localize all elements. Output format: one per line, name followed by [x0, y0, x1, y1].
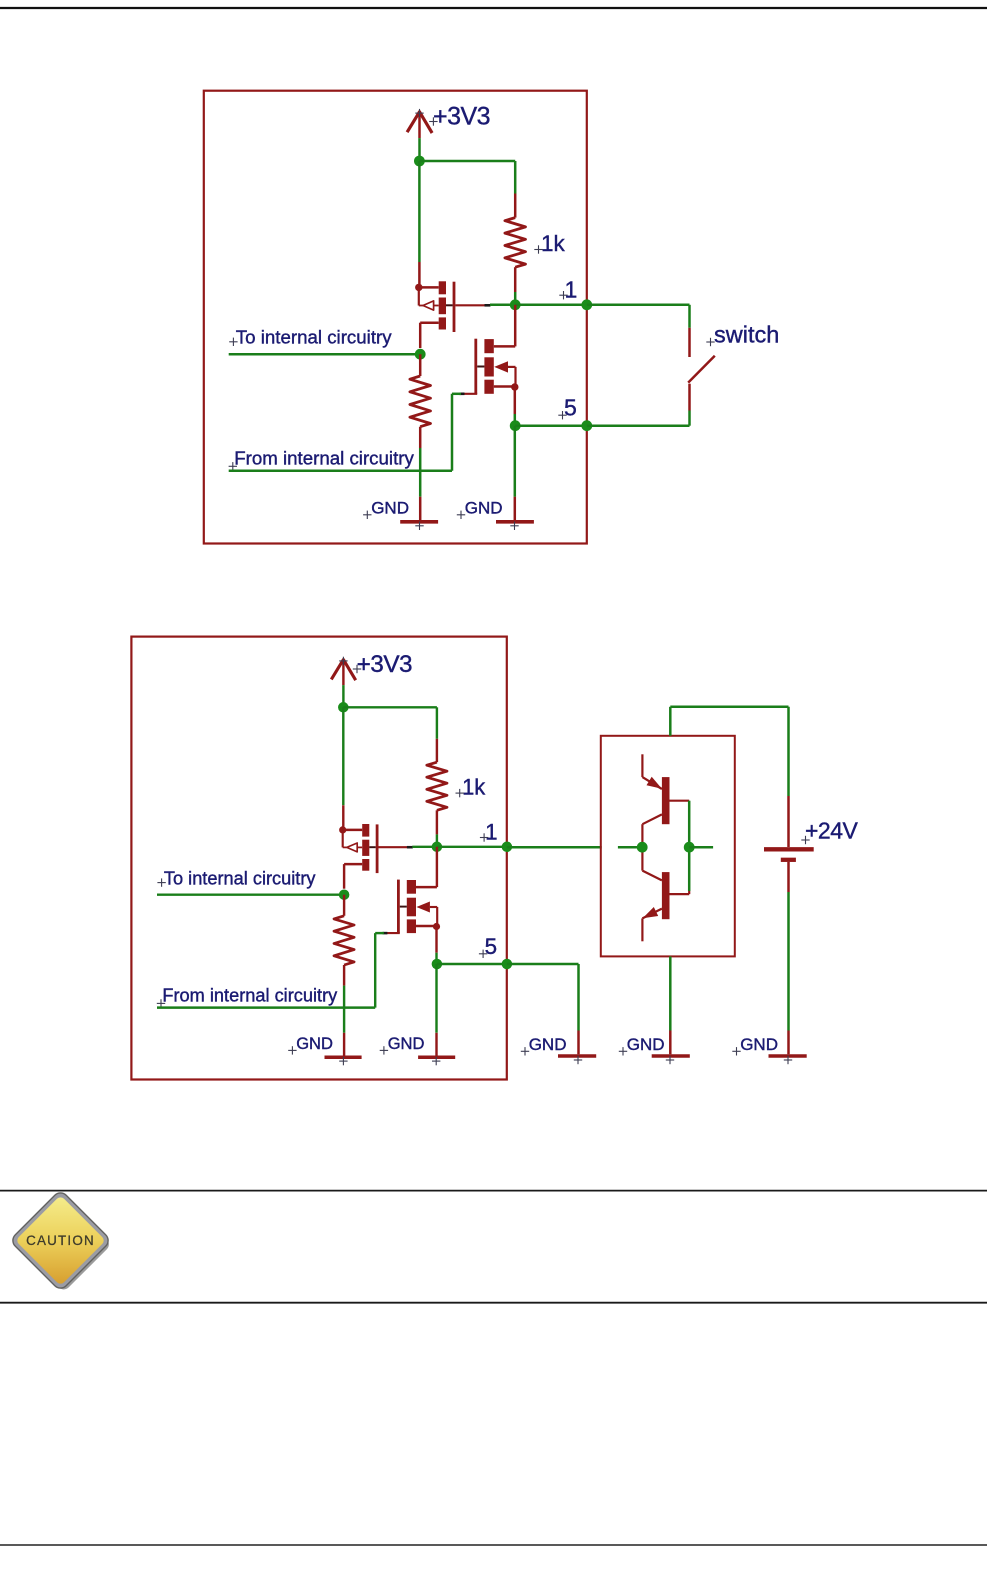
svg-text:5: 5 [564, 395, 577, 421]
Q2 source junction dot (circuit 2) [433, 923, 440, 930]
transistor Q1 P-MOSFET body (circuit 2) [343, 824, 379, 889]
GND2 origin marker (circuit 1) [510, 522, 518, 530]
junction node A (circuit 2) [338, 702, 349, 713]
Q2 gate pin (circuit 2) [384, 932, 400, 934]
resistor R1 1k (circuit 1) [505, 194, 526, 293]
junction node A (circuit 1) [414, 156, 425, 167]
P-MOSFET Q1 source pin (circuit 1) [418, 161, 421, 287]
+3V3 supply arrow (circuit 2) [331, 660, 355, 686]
wire node 1 to driver box [507, 846, 602, 849]
node 5 label origin marker (circuit 2) [479, 950, 487, 958]
wire node 1 to Q2 drain (circuit 2) [436, 847, 438, 887]
GND1 label origin marker (circuit 2) [288, 1046, 296, 1054]
schematic frame box (circuit 2) [131, 637, 506, 1080]
wire Q2 gate riser (circuit 1) [452, 394, 461, 471]
wire From internal circuitry (circuit 1) [229, 469, 452, 472]
svg-text:To internal circuitry: To internal circuitry [164, 868, 317, 888]
GND4 origin marker [666, 1056, 674, 1064]
wire driver box top to +24V [670, 707, 788, 796]
junction node 1 (circuit 1) [510, 299, 521, 310]
junction To-internal node (circuit 1) [415, 349, 426, 360]
svg-text:GND: GND [740, 1035, 778, 1054]
wire node 1 to switch [587, 305, 690, 328]
caution rule bottom [0, 1302, 987, 1304]
switch S1 [688, 328, 715, 411]
Q4 base connection [670, 847, 690, 894]
Q1 gate pin (circuit 2) [379, 846, 413, 848]
svg-text:GND: GND [371, 499, 409, 518]
svg-text:To internal circuitry: To internal circuitry [236, 327, 392, 348]
transistor Q1 P-MOSFET body (circuit 1) [419, 281, 456, 348]
Q2 gate pin connection tick (circuit 2) [383, 932, 388, 935]
junction node 5 at box edge (circuit 2) [502, 959, 513, 970]
+3V3 supply arrow (circuit 1) [407, 112, 432, 138]
Q2 source pin down (circuit 1) [514, 387, 517, 426]
GND3 label origin marker [521, 1047, 529, 1055]
resistor R2 pulldown (circuit 1) [410, 354, 431, 448]
P-MOSFET Q1 source junction dot (circuit 2) [339, 826, 346, 833]
svg-text:From internal circuitry: From internal circuitry [162, 986, 338, 1006]
GND1 label origin marker (circuit 1) [363, 511, 371, 519]
wire battery to GND5 [787, 892, 790, 1031]
node 5 label origin marker (circuit 1) [558, 411, 566, 419]
Q2 gate pin connection tick (circuit 1) [460, 392, 465, 395]
wire Q2 gate riser (circuit 2) [375, 933, 384, 1008]
+3V3 symbol origin marker (circuit 1) [415, 109, 423, 117]
GND2 label origin marker (circuit 1) [457, 511, 465, 519]
wire From internal circuitry (circuit 2) [157, 1006, 375, 1008]
svg-text:1k: 1k [541, 231, 566, 256]
svg-text:CAUTION: CAUTION [26, 1233, 95, 1248]
transistor Q3 PNP (upper) [642, 754, 669, 847]
wire Q1 gate to node 1 (circuit 2) [412, 846, 437, 848]
wire node 5 to box edge (circuit 1) [515, 424, 587, 427]
Q2 source pin down (circuit 2) [435, 927, 437, 965]
GND2 label origin marker (circuit 2) [380, 1046, 388, 1054]
wire R1 bottom to node 1 (circuit 2) [436, 834, 438, 846]
1k label origin marker (circuit 1) [534, 245, 542, 253]
caution sign shadow [16, 1196, 112, 1292]
svg-text:From internal circuitry: From internal circuitry [234, 448, 414, 469]
schematic frame box (circuit 1) [204, 91, 587, 544]
wire switch to node 5 [587, 411, 690, 426]
node 1 label origin marker (circuit 2) [480, 833, 488, 841]
wire driver box bottom to GND4 [669, 956, 672, 1030]
transistor Q2 N-MOSFET body (circuit 2) [397, 880, 437, 934]
wire +3V3 to node A (circuit 2) [342, 685, 344, 707]
GND2 origin marker (circuit 2) [432, 1057, 440, 1065]
junction node 1 at box edge (circuit 1) [581, 299, 592, 310]
GND1 origin marker (circuit 1) [415, 522, 423, 530]
driver box input pin left [618, 846, 642, 849]
Q2 source junction dot (circuit 1) [511, 383, 518, 390]
wire R2 to GND (circuit 2) [343, 986, 345, 1033]
junction driver collectors [637, 842, 648, 853]
svg-text:GND: GND [388, 1034, 425, 1053]
junction To-internal node (circuit 2) [339, 889, 350, 900]
GND5 label origin marker [732, 1047, 740, 1055]
ground GND2 (circuit 2) [418, 1033, 455, 1057]
driver box base pin stub [689, 846, 713, 849]
P-MOSFET Q1 source pin (circuit 2) [342, 707, 344, 830]
switch label origin marker [706, 338, 714, 346]
ground GND1 (circuit 1) [400, 497, 438, 522]
wire node 1 to box edge (circuit 1) [515, 304, 587, 307]
svg-text:+3V3: +3V3 [433, 102, 490, 130]
svg-text:GND: GND [627, 1035, 665, 1054]
external driver box U1 [601, 736, 735, 957]
junction driver bases [684, 842, 695, 853]
svg-text:switch: switch [714, 322, 779, 348]
wire node 5 to box edge (circuit 2) [437, 963, 507, 965]
battery B1 +24V [764, 796, 814, 892]
resistor R2 pulldown (circuit 2) [334, 895, 354, 986]
Q2 gate pin (circuit 1) [461, 393, 477, 395]
To internal circuitry label origin marker (circuit 1) [229, 338, 237, 346]
GND4 label origin marker [619, 1047, 627, 1055]
resistor R1 1k (circuit 2) [427, 739, 447, 835]
wire node 5 to GND2 (circuit 1) [514, 426, 517, 497]
transistor Q4 NPN (lower) [642, 847, 669, 941]
transistor Q2 N-MOSFET body (circuit 1) [474, 339, 515, 394]
wire node 5 to GND2 (circuit 2) [435, 964, 437, 1033]
ground GND2 (circuit 1) [496, 497, 534, 522]
page bottom rule [0, 1544, 987, 1546]
junction node 5 at box edge (circuit 1) [581, 420, 592, 431]
junction node 1 (circuit 2) [432, 842, 443, 853]
wire node 1 to Q2 drain (circuit 1) [514, 305, 517, 347]
+3V3 label origin marker (circuit 2) [353, 665, 361, 673]
caution rule top [0, 1190, 987, 1192]
wire Q1 gate to node 1 (circuit 1) [490, 304, 515, 307]
svg-text:GND: GND [296, 1034, 333, 1053]
junction node 1 at box edge (circuit 2) [502, 842, 513, 853]
ground GND1 (circuit 2) [325, 1033, 362, 1057]
GND3 origin marker [574, 1056, 582, 1064]
To internal circuitry label origin marker (circuit 2) [157, 878, 165, 886]
wire node A to R1 top (circuit 2) [343, 707, 437, 739]
+3V3 label origin marker (circuit 1) [429, 117, 437, 125]
ground GND3 [558, 1031, 596, 1057]
From internal circuitry label origin marker (circuit 2) [157, 999, 165, 1007]
Q3 base connection [670, 801, 690, 848]
wire node 5 to GND3 [507, 964, 579, 1031]
GND5 origin marker [784, 1056, 792, 1064]
1k label origin marker (circuit 2) [456, 789, 464, 797]
svg-text:+3V3: +3V3 [357, 651, 413, 678]
svg-text:1: 1 [485, 820, 497, 845]
ground GND5 [769, 1031, 807, 1057]
caution sign diamond [10, 1190, 112, 1292]
junction node 5 (circuit 1) [510, 420, 521, 431]
page top rule [0, 7, 987, 9]
P-MOSFET Q1 source junction dot (circuit 1) [415, 284, 422, 291]
svg-text:1k: 1k [462, 775, 485, 800]
From internal circuitry label origin marker (circuit 1) [229, 462, 237, 470]
junction node 5 (circuit 2) [432, 959, 443, 970]
svg-text:5: 5 [485, 934, 497, 959]
+3V3 symbol origin marker (circuit 2) [339, 657, 347, 665]
wire R1 bottom to node 1 (circuit 1) [514, 292, 517, 305]
wire To internal circuitry (circuit 1) [229, 353, 421, 356]
wire R2 to GND (circuit 1) [419, 448, 422, 497]
svg-text:GND: GND [529, 1035, 567, 1054]
Q1 gate pin connection tick (circuit 2) [407, 846, 413, 849]
svg-text:1: 1 [565, 277, 578, 303]
ground GND4 [652, 1031, 690, 1057]
wire node A to R1 top (circuit 1) [419, 161, 515, 194]
wire node 1 to box edge (circuit 2) [437, 846, 507, 848]
GND1 origin marker (circuit 2) [339, 1057, 347, 1065]
svg-text:GND: GND [465, 499, 503, 518]
wire To internal circuitry (circuit 2) [157, 893, 344, 895]
Q1 gate pin (circuit 1) [455, 304, 490, 306]
wire +3V3 to node A (circuit 1) [418, 138, 421, 161]
node 1 label origin marker (circuit 1) [559, 291, 567, 299]
+24V label origin marker [801, 836, 809, 844]
Q1 gate pin connection tick (circuit 1) [485, 304, 491, 307]
svg-text:+24V: +24V [805, 818, 859, 844]
